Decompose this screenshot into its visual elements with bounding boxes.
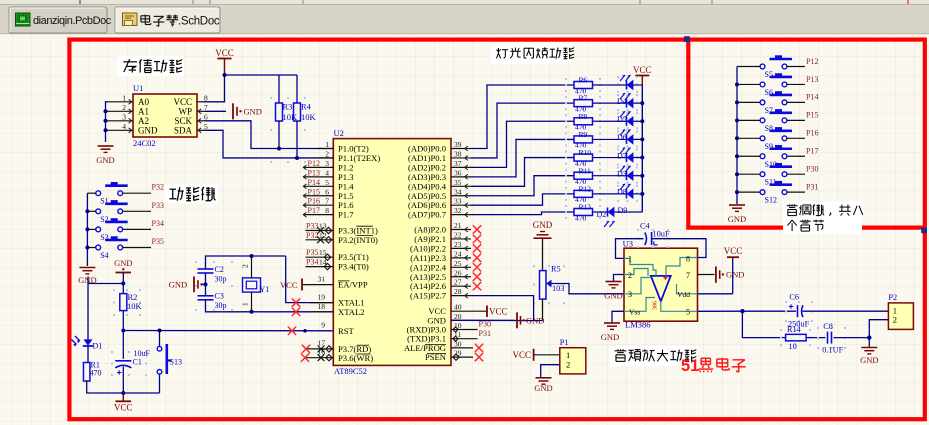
svg-text:C3: C3 <box>215 292 224 301</box>
svg-text:R3: R3 <box>283 102 293 112</box>
svg-text:(A15)P2.7: (A15)P2.7 <box>410 291 447 301</box>
no-ERC marker <box>302 345 310 353</box>
connector P1 <box>560 348 586 374</box>
wire D1 branch link <box>88 283 123 285</box>
no-ERC marker <box>473 254 481 262</box>
wire <box>787 66 805 68</box>
wire Y1 top <box>251 256 253 278</box>
resistor R2 <box>113 289 115 291</box>
ground port (U2 pin20) <box>516 312 518 328</box>
junction <box>735 172 739 176</box>
tab2 text <box>141 15 150 17</box>
LED D (row 4) <box>617 149 619 151</box>
svg-text:3: 3 <box>325 159 329 168</box>
svg-text:P32: P32 <box>152 183 164 192</box>
svg-text:GND: GND <box>244 106 262 116</box>
svg-text:3: 3 <box>122 112 126 121</box>
svg-text:2: 2 <box>628 271 632 280</box>
svg-text:1: 1 <box>122 93 126 102</box>
switch S11 <box>760 172 765 177</box>
svg-text:P3.2(INT0): P3.2(INT0) <box>338 235 378 245</box>
svg-text:P33: P33 <box>152 201 164 210</box>
svg-text:8: 8 <box>686 255 690 264</box>
wire <box>87 247 95 249</box>
svg-text:12: 12 <box>319 231 327 240</box>
svg-text:28: 28 <box>454 287 462 296</box>
switch S10 <box>760 154 765 159</box>
svg-text:SDA: SDA <box>174 125 193 135</box>
wire R14 branch <box>742 311 785 337</box>
junction R3/SCK <box>277 147 281 151</box>
wire SCK <box>205 121 334 149</box>
svg-text:VCC: VCC <box>512 350 531 360</box>
svg-text:GND: GND <box>138 125 158 135</box>
svg-text:GND: GND <box>726 270 744 280</box>
wire <box>123 247 151 249</box>
svg-text:D6: D6 <box>617 133 627 142</box>
svg-text:P30: P30 <box>479 320 491 329</box>
junction <box>640 192 644 196</box>
U3 internal wiring <box>624 258 656 276</box>
capacitor C6 <box>785 301 787 303</box>
svg-text:R8: R8 <box>579 112 588 121</box>
junction <box>204 282 208 286</box>
wire <box>106 110 109 112</box>
svg-text:GND: GND <box>860 355 878 365</box>
no-ERC marker <box>473 282 481 290</box>
U1 pin 6 (SCK) <box>197 120 205 122</box>
wire C3 bottom / XTAL2 <box>206 300 334 312</box>
svg-text:27: 27 <box>454 278 462 287</box>
svg-text:P30: P30 <box>806 165 818 174</box>
wire <box>737 101 760 103</box>
svg-text:Vdd: Vdd <box>677 290 690 299</box>
capacitor C8 <box>817 327 819 329</box>
svg-text:2: 2 <box>241 264 250 268</box>
svg-text:D8: D8 <box>617 188 627 197</box>
vertex marker 1 <box>684 36 690 42</box>
svg-text:AT89C52: AT89C52 <box>334 366 367 376</box>
svg-text:1: 1 <box>325 140 329 149</box>
svg-text:P32: P32 <box>306 231 318 240</box>
junction <box>121 282 125 286</box>
svg-text:10: 10 <box>789 342 797 351</box>
svg-text:U3: U3 <box>623 239 633 249</box>
wire VCC to pullups <box>225 74 298 76</box>
svg-text:7: 7 <box>204 103 208 112</box>
svg-text:VCC: VCC <box>489 306 508 316</box>
svg-text:103: 103 <box>552 284 564 293</box>
wire P0.1 to R7 <box>471 103 574 158</box>
svg-text:24C02: 24C02 <box>133 138 156 148</box>
wire <box>202 283 206 285</box>
junction <box>158 329 162 333</box>
connector P2 <box>888 303 913 330</box>
svg-text:2: 2 <box>566 360 570 370</box>
no-ERC marker pin30 <box>475 344 483 352</box>
wire <box>806 337 825 339</box>
junction <box>121 329 125 333</box>
resistor R12 <box>565 187 567 189</box>
svg-text:34: 34 <box>454 187 462 196</box>
junction <box>735 136 739 140</box>
wire <box>803 310 889 312</box>
svg-text:18: 18 <box>318 302 326 311</box>
svg-text:GND: GND <box>534 383 552 393</box>
svg-text:Y1: Y1 <box>260 285 270 294</box>
wire audio out <box>698 310 743 312</box>
svg-text:WP: WP <box>179 106 193 116</box>
svg-text:P34: P34 <box>152 219 164 228</box>
title 存储功能 background <box>117 56 184 76</box>
U1 pin 8 (VCC) <box>197 101 205 103</box>
chip U2 body <box>333 139 451 366</box>
junction <box>303 329 307 333</box>
LED D (row 0) <box>617 76 619 78</box>
svg-text:31: 31 <box>318 275 326 284</box>
svg-text:R12: R12 <box>579 184 592 193</box>
junction <box>85 209 89 213</box>
wire <box>87 210 95 212</box>
svg-text:P15: P15 <box>308 187 320 196</box>
junction <box>735 154 739 158</box>
svg-text:S12: S12 <box>765 196 777 205</box>
svg-text:24: 24 <box>454 249 462 258</box>
svg-text:33: 33 <box>454 197 462 206</box>
wire led VCC rail <box>641 85 643 212</box>
svg-text:39: 39 <box>454 140 462 149</box>
wire <box>787 191 805 193</box>
wire P0.7 to R13 <box>471 212 574 215</box>
svg-text:P17: P17 <box>806 147 818 156</box>
svg-text:R14: R14 <box>787 325 802 334</box>
junction <box>250 254 254 258</box>
wire <box>787 101 805 103</box>
svg-text:470: 470 <box>90 369 102 378</box>
svg-text:GND: GND <box>604 291 622 301</box>
svg-text:VCC: VCC <box>724 246 743 256</box>
svg-text:5: 5 <box>686 308 690 317</box>
wire P0.6 to R12 <box>471 194 574 205</box>
svg-text:P17: P17 <box>308 206 320 215</box>
switch S4 <box>96 245 101 250</box>
tab 电子琴.SchDoc (active) <box>115 7 220 33</box>
wire <box>787 155 805 157</box>
svg-text:D9: D9 <box>618 206 628 215</box>
title 存储功能 <box>123 61 137 63</box>
ground port (U3 pin7) <box>698 274 715 276</box>
svg-text:19: 19 <box>318 293 326 302</box>
U3 opamp triangle <box>651 276 671 301</box>
svg-text:32: 32 <box>454 206 462 215</box>
wire <box>123 210 151 212</box>
wire <box>787 137 805 139</box>
svg-text:GND: GND <box>526 315 544 325</box>
switch S7 <box>760 100 765 105</box>
svg-text:S13: S13 <box>170 358 182 367</box>
svg-text:VCC: VCC <box>114 403 133 413</box>
wire <box>737 191 760 193</box>
svg-text:P31: P31 <box>479 329 491 338</box>
svg-text:R7: R7 <box>579 94 588 103</box>
switch common bus wire <box>86 193 88 266</box>
svg-text:30p: 30p <box>215 301 227 310</box>
svg-text:U2: U2 <box>334 128 344 138</box>
no-ERC marker <box>473 263 481 271</box>
crystal Y1 <box>243 278 261 292</box>
ground (tone keys) <box>729 204 745 206</box>
U1 address bus wire <box>106 102 109 142</box>
svg-text:23: 23 <box>454 240 462 249</box>
junction <box>104 119 108 123</box>
ground (U3 Vss) <box>612 311 624 322</box>
svg-text:P14: P14 <box>308 178 320 187</box>
title 灯光闪烁功能 <box>497 48 499 53</box>
svg-text:D2: D2 <box>597 210 607 219</box>
junction <box>735 100 739 104</box>
svg-text:P14: P14 <box>806 93 818 102</box>
junction <box>250 310 254 314</box>
LED D (row 1) <box>617 94 619 96</box>
wire <box>787 173 805 175</box>
svg-text:38: 38 <box>454 149 462 158</box>
svg-text:dianziqin.PcbDoc: dianziqin.PcbDoc <box>33 15 112 27</box>
switch S1 <box>96 191 101 196</box>
sch doc icon <box>123 13 138 26</box>
wire SDA <box>205 130 334 158</box>
svg-text:4: 4 <box>122 122 126 131</box>
no-ERC marker <box>301 354 309 362</box>
switch S9 <box>760 136 765 141</box>
svg-text:D7: D7 <box>617 151 627 160</box>
junction <box>867 335 871 339</box>
LED D (row 3) <box>617 130 619 132</box>
document tab bar <box>0 5 929 35</box>
capacitor C4 <box>637 229 639 231</box>
U1 pin 1 (A0) <box>108 101 133 103</box>
svg-text:GND: GND <box>728 214 746 224</box>
junction <box>640 119 644 123</box>
svg-text:C6: C6 <box>789 292 799 301</box>
svg-text:SCK: SCK <box>174 116 192 126</box>
svg-text:P31: P31 <box>806 182 818 191</box>
resistor R1 <box>83 363 90 382</box>
svg-text:C2: C2 <box>215 265 224 274</box>
wire <box>123 192 151 194</box>
wire C2 top <box>206 256 286 269</box>
svg-text:5: 5 <box>204 122 208 131</box>
no-ERC marker pin29 <box>453 354 459 360</box>
tab dianziqin.PcbDoc <box>9 7 107 33</box>
wire <box>787 119 805 121</box>
svg-text:470: 470 <box>575 213 587 222</box>
wire C4 left <box>616 239 644 259</box>
svg-text:R9: R9 <box>579 130 588 139</box>
svg-text:C1: C1 <box>133 358 142 367</box>
no-ERC marker <box>317 227 324 234</box>
svg-text:8: 8 <box>325 206 329 215</box>
svg-text:40: 40 <box>454 303 462 312</box>
switch S8 <box>760 118 765 123</box>
wire Y1 bottom <box>251 292 253 312</box>
svg-text:10uF: 10uF <box>653 230 670 239</box>
switch S2 <box>96 209 101 214</box>
svg-text:XTAL2: XTAL2 <box>338 307 365 317</box>
svg-text:R4: R4 <box>301 102 312 112</box>
junction <box>640 174 644 178</box>
svg-text:36: 36 <box>454 168 462 177</box>
svg-text:VCC: VCC <box>280 280 298 290</box>
resistor R8 <box>565 114 567 116</box>
wire RST rail <box>123 330 333 332</box>
resistor R4 <box>296 75 298 103</box>
title line1 音调键，共八 <box>791 204 793 205</box>
svg-text:R5: R5 <box>551 265 561 274</box>
switch S6 <box>760 82 765 87</box>
svg-text:8: 8 <box>204 93 208 102</box>
capacitor C1 <box>111 351 113 353</box>
svg-text:A1: A1 <box>138 106 149 116</box>
svg-text:13: 13 <box>319 222 327 231</box>
chip U3 body <box>624 248 698 321</box>
svg-text:51: 51 <box>681 357 699 375</box>
svg-text:P33: P33 <box>306 222 318 231</box>
junction <box>121 391 125 395</box>
U1 pin 7 (WP) <box>197 110 205 112</box>
toolbar sliver above tabs <box>0 0 929 5</box>
resistor R10 <box>565 151 567 153</box>
wire <box>122 273 124 294</box>
title 音调键 background <box>783 201 862 234</box>
svg-text:VCC: VCC <box>215 48 234 58</box>
junction <box>640 156 644 160</box>
wire U2 GND to R5 <box>451 319 543 321</box>
svg-text:21: 21 <box>454 221 462 230</box>
wire XTAL1 <box>286 256 333 303</box>
tone keys common bus <box>736 67 738 205</box>
junction <box>104 128 108 132</box>
wire R5 bottom <box>542 299 544 321</box>
junction <box>223 73 227 77</box>
svg-text:P13: P13 <box>806 75 818 84</box>
wire Vdd <box>698 293 733 295</box>
svg-text:GND: GND <box>533 220 553 230</box>
U1 pin 4 (GND) <box>108 129 133 131</box>
wire VCC to U1 pin8 <box>205 75 225 102</box>
switch S13 <box>159 331 161 347</box>
title 音频放大功能 background <box>610 346 698 366</box>
svg-text:25: 25 <box>454 259 462 268</box>
title line2 个音节 <box>787 220 792 225</box>
svg-text:P35: P35 <box>152 237 164 246</box>
no-ERC marker XTAL2 <box>292 308 300 316</box>
wire P0.3 to R9 <box>471 139 574 176</box>
svg-text:A2: A2 <box>138 116 149 126</box>
wire <box>737 83 760 85</box>
wire <box>122 311 124 331</box>
junction <box>85 246 89 250</box>
svg-text:P1: P1 <box>560 338 569 347</box>
svg-text:30: 30 <box>454 339 462 348</box>
wire <box>737 137 760 139</box>
wire <box>834 337 870 339</box>
junction <box>104 109 108 113</box>
junction <box>735 82 739 86</box>
resistor R9 <box>565 132 567 134</box>
junction <box>85 227 89 231</box>
svg-text:1: 1 <box>241 302 250 306</box>
LED D (row 2) <box>617 112 619 114</box>
wire <box>205 273 207 296</box>
svg-text:VCC: VCC <box>173 97 192 107</box>
no-ERC marker XTAL1 <box>292 298 300 306</box>
no-ERC marker <box>473 225 481 233</box>
wire <box>737 119 760 121</box>
svg-text:P1.7: P1.7 <box>338 210 354 220</box>
svg-text:P2: P2 <box>888 293 897 302</box>
svg-text:6: 6 <box>204 112 208 121</box>
no-ERC marker <box>473 235 481 243</box>
potentiometer R5 <box>533 265 535 267</box>
svg-text:A0: A0 <box>138 97 149 107</box>
ground (U1 address) <box>98 145 114 147</box>
resistor R3 <box>270 97 272 99</box>
U1 pin 2 (A1) <box>108 110 133 112</box>
wire EA <box>302 284 333 286</box>
U1 pin 5 (SDA) <box>197 129 205 131</box>
wire <box>87 346 89 363</box>
svg-text:6: 6 <box>325 187 329 196</box>
svg-text:P35: P35 <box>306 248 318 257</box>
svg-text:GND: GND <box>114 258 132 268</box>
junction R4/SDA <box>295 156 299 160</box>
wire C4 right <box>651 239 706 258</box>
svg-text:386: 386 <box>653 301 659 310</box>
title 音频放大功能 <box>620 349 622 351</box>
ground (keys common) <box>79 267 95 269</box>
svg-text:7: 7 <box>325 197 329 206</box>
svg-text:D3: D3 <box>617 170 627 179</box>
ground (U3 pin2) <box>614 275 625 282</box>
svg-text:1: 1 <box>566 350 570 360</box>
wire P0.0 to R6 <box>471 85 574 149</box>
wire <box>737 66 760 68</box>
svg-text:P3.4(T0): P3.4(T0) <box>338 262 369 272</box>
svg-text:1: 1 <box>628 255 632 264</box>
svg-text:S4: S4 <box>100 251 108 260</box>
wire <box>542 238 544 270</box>
resistor R6 <box>565 78 567 80</box>
svg-text:GND: GND <box>169 280 187 290</box>
svg-text:35: 35 <box>454 178 462 187</box>
U1 pin 3 (A2) <box>108 120 133 122</box>
svg-text:Vss: Vss <box>629 308 640 317</box>
svg-text:7: 7 <box>686 271 690 280</box>
wire <box>106 120 109 122</box>
pcb icon <box>16 13 31 26</box>
LED D (row 6) <box>617 185 619 187</box>
ground port (U1 WP) <box>205 110 227 112</box>
svg-text:VCC: VCC <box>633 65 652 75</box>
svg-text:D4: D4 <box>617 97 627 106</box>
wire R5 wiper <box>552 284 625 294</box>
svg-text:R11: R11 <box>579 166 591 175</box>
svg-text:10K: 10K <box>301 112 317 122</box>
switch S12 <box>760 190 765 195</box>
svg-text:22: 22 <box>454 230 462 239</box>
LED D2 <box>593 211 608 213</box>
svg-text:2: 2 <box>325 149 329 158</box>
